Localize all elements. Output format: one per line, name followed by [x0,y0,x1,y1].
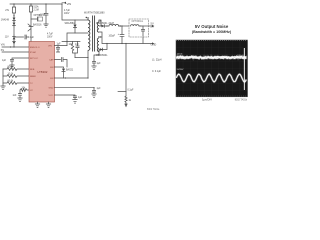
svg-text:L1: 22µH: L1: 22µH [152,59,162,61]
svg-text:BAS21: BAS21 [66,69,74,72]
capacitor C6 (CAP pin) [55,46,68,53]
resistor R1 [12,4,15,17]
optional filter box [129,19,149,37]
svg-text:1µs/DIV: 1µs/DIV [202,98,212,102]
transistor Q1 [28,14,33,42]
svg-text:100V: 100V [64,13,70,15]
svg-text:8302 TA01a: 8302 TA01a [147,108,160,111]
inductor L1 22uH [107,24,121,26]
scope top ticks [176,40,248,42]
wire top rail [10,3,62,5]
svg-text:SMAJ58A: SMAJ58A [65,22,76,25]
IC U1 LT8302 [29,42,55,103]
svg-text:RFB: RFB [30,69,35,71]
svg-text:1µF: 1µF [78,97,83,99]
capacitor C9 + ground [92,88,96,98]
svg-text:1N4148: 1N4148 [1,19,10,21]
svg-text:MBR0520L: MBR0520L [96,23,108,25]
svg-text:TC: TC [30,83,33,85]
zener D3 [13,35,16,47]
TVS D4 [73,20,76,33]
svg-text:10Ω: 10Ω [69,44,74,46]
ground [1,86,5,90]
svg-text:(Bandwidth = 100MHz): (Bandwidth = 100MHz) [192,30,232,34]
wire y=33 [67,33,88,42]
svg-text:20mV: 20mV [177,53,183,55]
wire VIN feed down [62,3,88,20]
capacitor C3 [15,35,28,39]
resistor RVC + capacitor CVC [18,89,29,98]
wire snubber top [62,42,80,46]
svg-text:PG: PG [1,50,5,52]
svg-text:VIN: VIN [67,2,72,6]
ground (under IC) [35,102,39,108]
svg-text:100µF: 100µF [109,36,116,38]
svg-text:510k: 510k [34,7,40,9]
wire GND out rail [99,32,152,44]
snubber R3/C7 [71,42,79,58]
svg-text:11V: 11V [5,36,9,38]
scope channel labels [177,53,245,71]
wire snubber to SW [75,57,88,59]
svg-text:VIN: VIN [48,45,52,47]
svg-text:4.7µF: 4.7µF [64,10,71,12]
ground [44,24,48,27]
svg-text:VIN: VIN [1,45,5,47]
svg-text:0.1µF: 0.1µF [28,37,35,39]
svg-text:BAS516: BAS516 [33,23,42,26]
resistor R4 + probe arrow [125,96,127,107]
svg-text:1µF: 1µF [97,88,102,90]
ground (under IC 2) [46,102,50,108]
wire left bus [2,69,4,86]
wire SW [55,51,89,79]
wire output sense drop [125,44,127,97]
resistor RFB [3,68,29,71]
svg-text:0.1µF: 0.1µF [128,90,135,92]
oscilloscope screen [176,40,248,97]
svg-text:80.6k: 80.6k [8,67,14,69]
scope bottom ticks [176,95,248,97]
trace 2 (SW ripple wave) [176,74,246,82]
svg-text:CAP: CAP [49,58,54,61]
svg-text:1nF: 1nF [75,44,80,46]
svg-text:8302 TA01b: 8302 TA01b [235,99,248,102]
svg-text:4.7µF: 4.7µF [40,14,47,16]
svg-text:INTVCC: INTVCC [30,58,39,60]
ground [10,65,14,68]
svg-text:MBR0520L: MBR0520L [96,55,108,57]
diode D6 MBR0520L top [99,20,107,27]
svg-text:2.2M: 2.2M [34,9,39,11]
wire EN [2,46,29,48]
svg-text:22µH: 22µH [109,23,115,25]
svg-text:WURTH 750811880: WURTH 750811880 [84,13,105,15]
capacitor C13 bias + ground [92,52,99,70]
wire to 5V out [140,25,152,27]
transformer T1 [86,16,102,52]
capacitor C2 [31,17,38,21]
svg-text:2A: 2A [151,24,154,28]
svg-text:1nF: 1nF [13,95,18,97]
wire out rail [119,25,129,27]
svg-text:RREF: RREF [30,76,37,78]
svg-text:20mV: 20mV [239,55,245,57]
resistor R2 [29,4,32,14]
svg-text:1µF: 1µF [57,43,62,45]
svg-text:1µF: 1µF [97,63,102,65]
svg-text:4.7µF: 4.7µF [47,34,54,36]
svg-text:OPTIONAL: OPTIONAL [132,20,144,23]
capacitor C11 [141,26,144,36]
wire [13,27,15,35]
svg-text:1µF: 1µF [2,60,7,62]
diode D2 [13,21,16,27]
svg-text:VC: VC [30,90,33,92]
svg-text:GND: GND [49,88,54,90]
capacitor C10 + ground [55,95,78,103]
resistor RREF [3,75,29,78]
svg-text:100V: 100V [47,36,53,38]
diode D1 [13,17,16,21]
wire GND rail [55,87,95,89]
trace 1 (5V output noise band) [176,56,246,58]
svg-text:5V/DIV: 5V/DIV [177,69,184,71]
svg-text:5V Output Noise: 5V Output Noise [195,24,229,29]
resistor RTC [3,82,29,85]
svg-text:EN/UVLO: EN/UVLO [30,47,40,49]
wire PG [2,51,29,53]
capacitor C8 (pin y59.5) [55,58,68,68]
diode D5 [55,67,66,78]
capacitor C5 (INTVCC) [10,58,29,65]
capacitor C4 (VIN bypass) [44,4,48,24]
svg-text:IPGM: IPGM [30,52,36,54]
scope right bright edge [243,48,245,90]
diode D7 MBR0520L bottom [99,44,107,51]
svg-text:LT8302: LT8302 [38,70,48,74]
svg-text:80.6k: 80.6k [8,81,14,83]
inductor L2 [131,25,142,26]
svg-text:10.0k: 10.0k [8,74,14,76]
svg-text:GND: GND [151,43,157,47]
svg-text:C: 0.1µF: C: 0.1µF [152,71,161,73]
schematic small text labels [1,2,162,111]
ground [18,98,22,102]
